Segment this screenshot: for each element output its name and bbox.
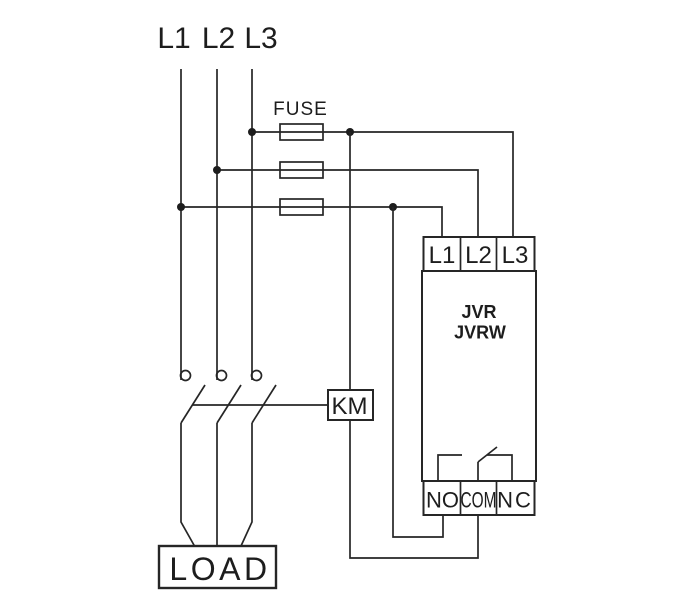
junction dot L3/fuse1: [248, 128, 256, 136]
contactor KM pole 2 blade: [217, 385, 241, 423]
mechanical linkage to KM coil: [192, 404, 328, 406]
svg-text:NC: NC: [497, 488, 533, 513]
relay top terminal block: [424, 237, 535, 271]
wire L2 vertical: [216, 69, 218, 380]
contactor KM pole 2 terminal circle: [217, 371, 227, 381]
relay contact blade: [478, 447, 497, 462]
svg-text:L1: L1: [429, 242, 456, 269]
fuse F2: [280, 162, 323, 178]
wire L3 vertical: [251, 69, 253, 380]
terminal divider COM/NC: [496, 481, 498, 515]
junction dot NO feed: [389, 203, 397, 211]
junction dot L1/fuse3: [177, 203, 185, 211]
wire NO terminal to L1 fuse: [393, 207, 443, 537]
terminal divider L1/L2: [460, 237, 462, 271]
relay bottom terminal block: [424, 481, 535, 515]
wire pole 1 to LOAD: [181, 423, 195, 546]
svg-text:L3: L3: [502, 242, 529, 269]
load box: [159, 546, 276, 588]
svg-text:JVR: JVR: [461, 302, 496, 322]
wire fuse row 3 (L1 phase): [181, 207, 442, 237]
contactor KM pole 3 terminal circle: [252, 371, 262, 381]
wire pole 2 to LOAD: [216, 423, 218, 546]
svg-text:L2: L2: [465, 242, 492, 269]
wire COM terminal to KM coil: [350, 420, 478, 558]
relay U1 body: [422, 271, 536, 481]
fuse F1: [280, 124, 323, 140]
svg-text:JVRW: JVRW: [454, 323, 506, 343]
terminal divider L2/L3: [496, 237, 498, 271]
relay contact NC stub: [487, 455, 512, 481]
wire pole 3 to LOAD: [241, 423, 252, 546]
relay contact NO stub: [438, 455, 462, 481]
contactor KM pole 1 terminal circle: [181, 371, 191, 381]
svg-text:LOAD: LOAD: [169, 551, 270, 587]
svg-text:NO: NO: [426, 488, 459, 513]
junction dot L2/fuse2: [213, 166, 221, 174]
contactor KM pole 1 blade: [181, 385, 205, 423]
fuse F3: [280, 199, 323, 215]
svg-text:L2: L2: [202, 22, 235, 55]
wire L1 vertical: [180, 69, 182, 380]
svg-text:L3: L3: [244, 22, 277, 55]
relay contact COM pole: [477, 462, 479, 481]
contactor coil KM box: [328, 390, 373, 420]
wire fuse row 2 (L2 phase): [217, 170, 478, 237]
svg-text:KM: KM: [332, 393, 368, 420]
svg-text:FUSE: FUSE: [273, 99, 328, 120]
wire fuse row 1 (L3 phase): [252, 132, 513, 237]
wire KM coil feed from L3 fuse: [349, 132, 351, 390]
svg-text:L1: L1: [157, 22, 190, 55]
svg-text:COM: COM: [461, 488, 497, 513]
contactor KM pole 3 blade: [252, 385, 276, 423]
terminal divider NO/COM: [460, 481, 462, 515]
junction dot KM coil feed: [346, 128, 354, 136]
